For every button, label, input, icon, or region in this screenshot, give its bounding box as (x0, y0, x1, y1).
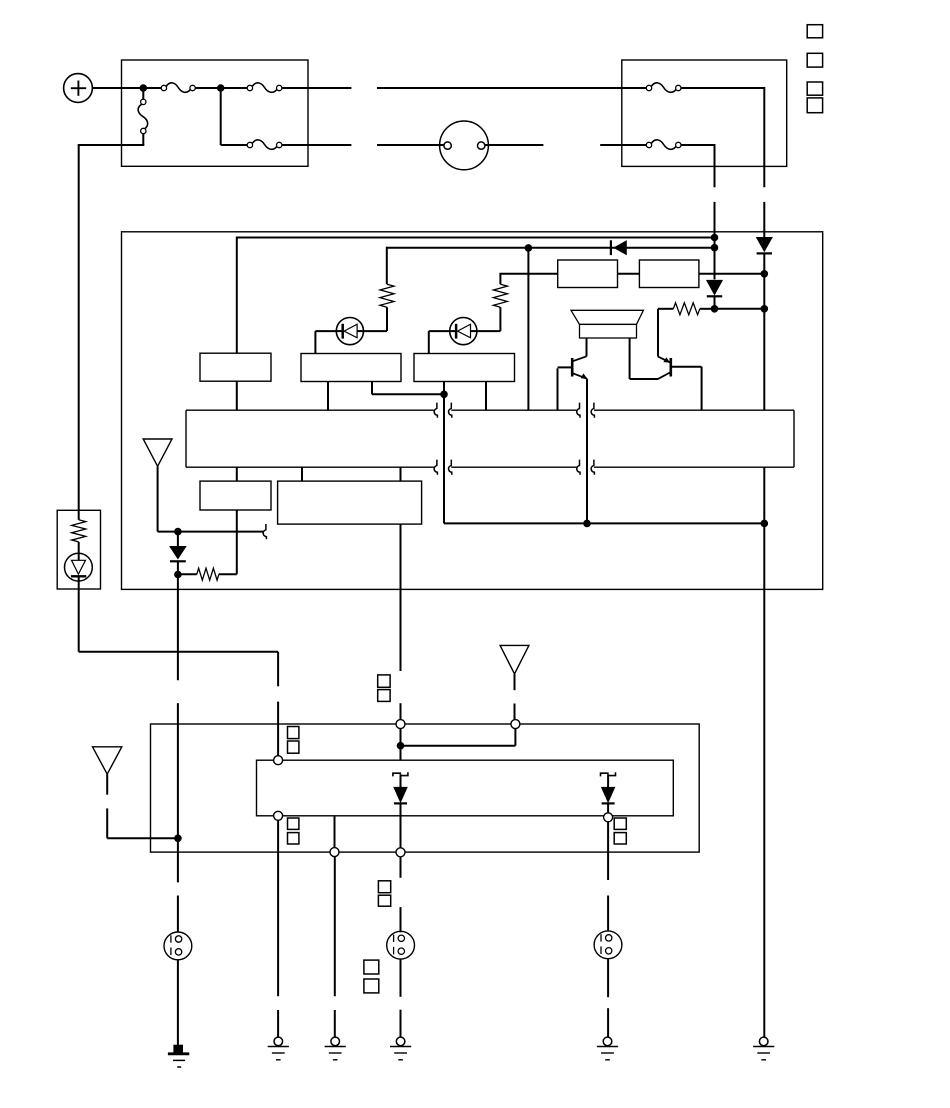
antenna symbol ANT2 (93, 747, 122, 774)
wire D5 to outer pin (400, 803, 402, 847)
wire bus2 left drop (386, 247, 388, 285)
resistor R5 (72, 520, 86, 542)
node dot U-link (397, 742, 405, 750)
connector square label 4 (807, 98, 822, 113)
connector strip row (18P) edges (186, 410, 794, 467)
wire bus 1 horizontal (237, 237, 715, 239)
node junction dot B (217, 84, 225, 92)
resistor R4 (197, 568, 219, 580)
wire U-link (401, 729, 516, 746)
node dot bus2-right (711, 244, 719, 252)
break hook D6 (601, 772, 616, 776)
wire center line upper (400, 703, 402, 719)
pin wire strip to U3 b (400, 467, 402, 481)
diode D3 (757, 238, 772, 254)
ignition switch SW1 (440, 121, 489, 170)
square label pair P6 (364, 960, 379, 993)
node dot R3-right (711, 305, 719, 313)
square label pair P5 (378, 881, 390, 906)
wire LED2 to relay B (429, 331, 450, 353)
wire immobilizer resume (177, 703, 179, 838)
pin wire K1-a to strip (327, 382, 329, 411)
pin circle inner-bottom-right (604, 813, 613, 822)
wire center pin down (400, 729, 402, 761)
resistor R1 (380, 284, 394, 307)
wire line2 to ground (277, 820, 279, 1037)
wire bus2 node drop to strip (527, 248, 529, 410)
wire line4 to connector (400, 857, 402, 933)
node dot ground-bus-left (583, 520, 591, 528)
wire parking line from inner (334, 816, 336, 848)
relay block K0 (200, 353, 271, 381)
wire into indicator unit (78, 509, 80, 520)
horn speaker SP1 (571, 310, 643, 338)
pin wire K2-a through strip (443, 382, 445, 524)
break mark antenna wire (263, 524, 266, 539)
wire D2 to node (714, 296, 716, 309)
node dot ANT1 junction (174, 528, 182, 536)
fuse F4 (247, 140, 282, 149)
wire line3 to ground (334, 856, 336, 1037)
wire right line below strip (763, 467, 765, 1037)
wire LED3 down and across (79, 576, 278, 652)
wire C2 to ground (400, 959, 402, 1037)
pin circle outer-bottom-b (396, 848, 405, 857)
pin circle outer-top-b (511, 720, 520, 729)
break mark pair 1 top (434, 403, 452, 418)
ground G2 (268, 1037, 289, 1060)
wire Q2 collector to speaker (630, 378, 659, 380)
LED indicator LED2 (450, 318, 477, 345)
node dot ANT2 junction (174, 835, 182, 843)
wire drop to keyless box (277, 652, 279, 760)
wire hot feed to fuse box 2 (377, 87, 646, 89)
wire F1 to F2 (195, 87, 247, 89)
wire C3 to ground (607, 959, 609, 1038)
connector square label 3 (807, 82, 822, 95)
wire left feed down (78, 145, 80, 510)
LED indicator LED3 (65, 553, 93, 581)
wire junction B down (221, 88, 248, 145)
ground G3 (325, 1037, 346, 1060)
pin circle outer-top-a (396, 720, 405, 729)
wire R1 to LED1 (364, 307, 388, 331)
pin wire strip to K3 (236, 467, 238, 481)
pin wire K1-b elbow (372, 382, 444, 395)
square label pair P4 (378, 675, 390, 701)
wire R4 leads (178, 573, 237, 575)
wire ANT1 down (158, 466, 263, 531)
wire immobilizer line down (177, 575, 179, 681)
transistor Q2 (658, 357, 702, 379)
node junction dot A (140, 84, 148, 92)
wire inner drop resume (714, 202, 716, 280)
wire D6 to pin circle (607, 803, 609, 812)
wire F4 out to break (282, 144, 352, 146)
wire U3 down long (400, 524, 402, 671)
wire R3 left lead (658, 309, 673, 357)
wire bus1 left drop to relay box (236, 237, 238, 354)
node dot bus1-right (711, 234, 719, 242)
wire right drop resume (763, 202, 765, 237)
break mark pair 1 bottom (434, 460, 452, 475)
ground G6 (753, 1037, 774, 1060)
wire F3 to lower-left run (78, 134, 145, 145)
wire left line to connector (177, 838, 179, 932)
antenna symbol ANT3 (500, 645, 529, 674)
logic block U1 (558, 260, 618, 288)
ground G1 (168, 1045, 189, 1067)
fuse F3 vertical (138, 99, 147, 133)
logic block U3 (278, 481, 422, 524)
node dot D4-R4 (174, 571, 182, 579)
LED indicator LED1 (336, 318, 363, 345)
battery B1 positive terminal (64, 74, 93, 103)
wire F5 to right drop (681, 87, 764, 187)
wire C1 to ground (177, 960, 179, 1045)
wire to fuse box 2 lower (600, 144, 646, 146)
resistor R3 (673, 303, 700, 315)
wire LED1 to relay A (315, 331, 336, 353)
fuse box 2 (under-hood fuse box) (622, 60, 787, 166)
break mark pair 2 bottom (577, 460, 595, 475)
logic block U2 (639, 260, 699, 288)
wire Q1 emitter down (586, 379, 588, 524)
wire F2 out to break (282, 87, 352, 89)
inline connector C2 (387, 931, 415, 959)
square label pair P2 (288, 818, 299, 844)
security indicator unit box (57, 510, 100, 589)
wire Q1 base to connector (557, 368, 559, 410)
wire ANT3 down dashed (514, 674, 516, 720)
wire junction to D4 (177, 532, 179, 547)
security control unit box (122, 232, 823, 590)
pin wire K2-b to strip (485, 382, 487, 411)
pin circle outer-bottom-a (330, 848, 339, 857)
relay block K3 (200, 481, 271, 510)
wire speaker right pin (629, 338, 631, 379)
diode D2 (707, 280, 722, 296)
relay block K2 (414, 354, 515, 382)
wire Q2 base down (701, 367, 703, 410)
pin wire K3 down to R4 (236, 510, 238, 574)
diode D6 (602, 774, 615, 803)
fuse F5 (646, 83, 681, 92)
node dot bus2-mid (525, 244, 533, 252)
fuse F1 (161, 83, 195, 92)
pin circle inner-bottom-left (274, 811, 283, 820)
antenna symbol ANT1 (143, 439, 172, 466)
wire mid bus 3 horizontal (500, 273, 764, 275)
connector square label 2 (807, 53, 822, 67)
diode D4 (170, 547, 186, 562)
node dot elbow (440, 391, 448, 399)
diode D5 (394, 774, 407, 803)
connector square label 1 (807, 25, 822, 38)
inline connector C3 (594, 931, 622, 959)
keyless inner module (257, 760, 674, 816)
wire F6 to inner drop (681, 144, 715, 187)
wire break to ignition switch (377, 144, 444, 146)
wire R2 to LED2 (477, 307, 500, 331)
pin wire K0 to strip (236, 381, 238, 410)
wire junction A down to F3 (142, 90, 144, 99)
fuse F2 (247, 83, 282, 92)
ground G5 (597, 1037, 618, 1060)
wire bus 2 horizontal (387, 247, 715, 249)
wire R5 to LED3 (78, 542, 80, 560)
wire speaker left pin (586, 338, 588, 357)
break mark pair 2 top (577, 403, 595, 418)
diode D1 (611, 240, 626, 255)
wire ANT2 down dashed (107, 774, 178, 838)
wire node link (715, 308, 765, 310)
pin circle inner-top (274, 756, 283, 765)
wire ignition switch out (485, 144, 544, 146)
wire battery to fuse box (92, 87, 161, 89)
wire bus3 drop to R2 (499, 273, 501, 284)
keyless receiver unit box (151, 724, 700, 852)
wire ground bus horizontal (444, 522, 764, 524)
fuse box 1 (dash fuse box) (122, 60, 309, 166)
ground G4 (390, 1037, 411, 1060)
node dot ground-bus-right (761, 520, 769, 528)
wire D4 to node (177, 561, 179, 574)
wire right line down (763, 253, 765, 410)
square label pair P3 (614, 818, 626, 844)
break hook D5 (393, 772, 408, 776)
pin wire strip to U3 a (301, 467, 303, 481)
wire R3 right lead (700, 308, 715, 310)
wire line5 to connector (607, 822, 609, 931)
relay block K1 (301, 354, 401, 382)
fuse F6 (646, 140, 681, 149)
transistor Q1 (558, 356, 588, 379)
node dot right-line (761, 305, 769, 313)
resistor R2 (493, 284, 507, 307)
inline connector C1 (164, 932, 192, 960)
square label pair P1 (288, 727, 299, 754)
node dot bus3-right (761, 270, 769, 278)
